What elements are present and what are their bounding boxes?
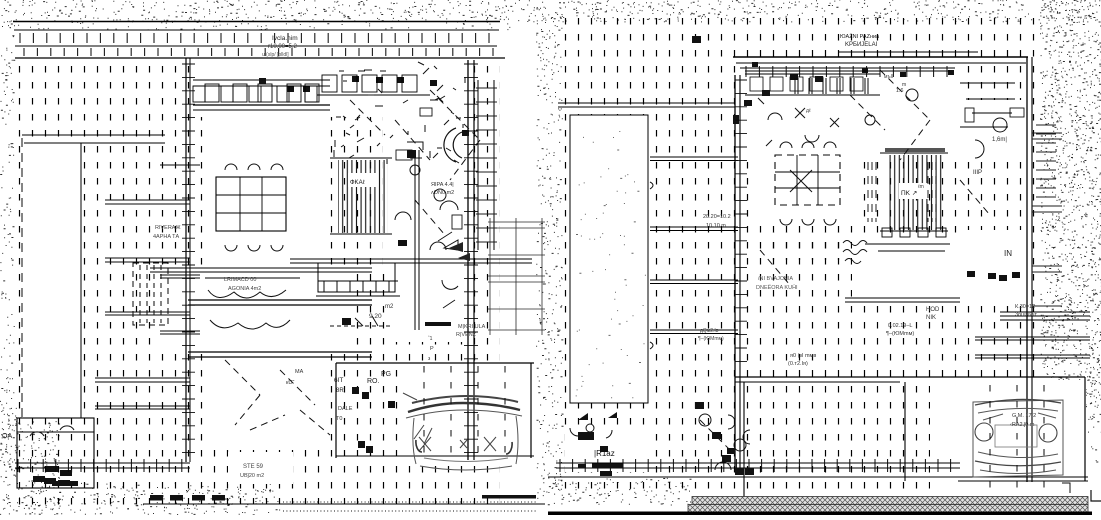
svg-text:IIIР: IIIР [973, 170, 982, 176]
text 2020 [703, 214, 731, 229]
svg-text:кU˜: кU˜ [286, 380, 294, 386]
text IN [1004, 249, 1012, 258]
exterior stair ladder left plan [476, 80, 497, 250]
exterior stair grid bottom right of left plan [488, 218, 545, 335]
svg-text:T0: T0 [336, 416, 342, 422]
black blob row above right garage [967, 271, 1020, 281]
svg-text:10.10 m: 10.10 m [706, 223, 726, 229]
svg-text:ℓm: ℓm [918, 184, 924, 190]
svg-text:DNEЁORA KUĤI: DNEЁORA KUĤI [756, 284, 798, 291]
staircase hatch left plan [330, 158, 392, 234]
svg-text:RIVERAЖ: RIVERAЖ [155, 225, 181, 231]
svg-text:ПK ↗: ПK ↗ [901, 190, 917, 197]
car right garage [973, 399, 1063, 477]
svg-text:KРБИЈΕLАI: KРБИЈΕLАI [845, 42, 878, 48]
right plan top walls [733, 52, 1028, 68]
svg-text:NIK: NIK [926, 315, 936, 321]
black blob top right plan [692, 36, 701, 43]
svg-text:дQм2.Iв: дQм2.Iв [700, 328, 719, 334]
svg-text:6IT: 6IT [334, 377, 343, 384]
svg-text:UBǰ20 m2: UBǰ20 m2 [240, 473, 264, 479]
svg-text:¶–(ЮМmм): ¶–(ЮМmм) [698, 336, 724, 342]
text garage labels [334, 371, 391, 422]
squiggles below stairs right plan [843, 228, 950, 264]
svg-text:PG: PG [381, 371, 391, 378]
svg-text:m2: m2 [385, 304, 394, 310]
kitchen counter right plan [745, 74, 880, 95]
svg-text:я0 (зI mмв: я0 (зI mмв [790, 353, 816, 359]
lounge walls [150, 268, 372, 357]
text bvajcnia [756, 276, 798, 291]
text k30 [1015, 304, 1037, 318]
svg-text:Ivcla.nim: Ivcla.nim [272, 35, 298, 42]
bottom edge left plan [143, 495, 545, 511]
left plan left wall [186, 58, 190, 462]
speckle noise right edge [1039, 0, 1101, 465]
top tick rows [20, 33, 493, 56]
left plan right wall [468, 60, 474, 460]
text 920m2 right [698, 328, 724, 342]
right edge bracket [1062, 483, 1101, 501]
svg-text:1.6: 1.6 [894, 88, 903, 94]
svg-text:LRIMACD 00: LRIMACD 00 [224, 277, 256, 283]
text ste59 [240, 464, 264, 479]
svg-text:(0.т2.Iя): (0.т2.Iя) [788, 361, 808, 367]
text IIR [973, 170, 982, 176]
svg-text:STE 59: STE 59 [243, 464, 264, 470]
svg-text:IN: IN [1004, 249, 1012, 258]
text mikri [456, 324, 486, 338]
bottom line ticks and blobs [18, 459, 951, 476]
faint dots in terrace [576, 132, 646, 398]
bathroom column walls left plan [415, 150, 458, 362]
speckle noise bottom middle [548, 478, 691, 505]
svg-text:AGONIA 4m2: AGONIA 4m2 [228, 286, 261, 292]
bathroom shelves right plan [960, 83, 1015, 127]
svg-text:ОA: ОA [2, 433, 12, 440]
svg-text:8R: 8R [336, 388, 344, 394]
text 50mm [788, 353, 816, 367]
beams above right car [975, 312, 1090, 358]
speckle noise left edge [0, 22, 15, 477]
dining table right plan [770, 142, 842, 260]
svg-text:u (slp/ [plldl]: u (slp/ [plldl] [262, 52, 289, 58]
text viola [262, 35, 298, 58]
door flags R1az area [570, 412, 617, 452]
svg-text:0.02.19–L: 0.02.19–L [888, 323, 912, 329]
svg-text:‹RA2.ǰ0 m: ‹RA2.ǰ0 m [1010, 422, 1035, 428]
svg-text:ЮAŽNI РАZниа: ЮAŽNI РАZниа [840, 32, 880, 40]
car left garage [403, 393, 522, 470]
right plan white rooms [565, 64, 1086, 492]
right plan interior walls [548, 298, 1088, 481]
sofa left plan [205, 278, 300, 329]
text ratni [840, 32, 880, 48]
svg-text:RO.: RO. [367, 378, 380, 385]
bottom-left furniture box [17, 418, 94, 488]
upper furniture row [317, 75, 430, 95]
extra living room fixtures left plan [395, 108, 469, 250]
svg-text:1,6m|: 1,6m| [992, 137, 1007, 143]
svg-text:20.20=10.2: 20.20=10.2 [703, 214, 731, 220]
wc fixtures bottom middle [695, 402, 754, 475]
door swing dashes living [350, 90, 480, 235]
text hodnik [926, 307, 940, 321]
svg-text:P: P [430, 346, 434, 352]
text gm172 [1010, 413, 1036, 428]
garage outline left [336, 363, 534, 458]
terrace rect border [570, 115, 648, 403]
kitchen appliances right black [733, 74, 823, 124]
left plan dash field [15, 58, 500, 510]
bathroom fixtures right plan [965, 108, 1024, 158]
door swing dashes hall [225, 360, 330, 435]
right exterior ticks [1032, 125, 1062, 312]
kitchen cabinet extra boxes [193, 86, 330, 102]
right plan bottom wall x744 [727, 382, 750, 497]
text r1az [594, 449, 615, 458]
svg-text:К.30=12: К.30=12 [1015, 304, 1035, 310]
X marks and arcs right kitchen room [758, 98, 839, 146]
sparse dash columns in garages [424, 366, 1044, 488]
text upa [431, 182, 454, 196]
speckle noise middle gap [536, 15, 563, 505]
kitchen counter left plan [193, 80, 330, 110]
bottom black bar [548, 512, 1092, 516]
text riveras [153, 225, 181, 240]
garage black blobs left [352, 387, 395, 453]
svg-text:¶–(ЮМmм): ¶–(ЮМmм) [886, 331, 914, 337]
top tick row right plan [745, 66, 950, 77]
left plan top wall lines [13, 22, 505, 59]
terrace edge hooks [650, 182, 653, 349]
svg-text:9.20: 9.20 [369, 313, 382, 320]
right plan left wall [735, 75, 740, 470]
extra clutter upper corridor left plan [334, 62, 465, 165]
svg-text:3ошѕ65т: 3ошѕ65т [1015, 312, 1037, 318]
wall y259 left plan [290, 259, 532, 263]
right plan right wall [1027, 57, 1032, 482]
white strip borders [22, 135, 165, 418]
left staircase treads [105, 165, 200, 334]
svg-text:мъII: мъII [884, 74, 893, 80]
stair side ticks right plan [868, 162, 936, 222]
right plan dash field [558, 12, 1040, 490]
text 16m [992, 137, 1007, 143]
right plan upper scatter extra [752, 62, 954, 190]
pergola beams left [15, 378, 190, 468]
kitchen appliances black [259, 76, 437, 92]
tiny text bottom left [2, 433, 12, 440]
dense dashed box left stair landing [133, 263, 168, 325]
left plan white rooms [23, 62, 532, 484]
door swing dashes right plan [700, 70, 990, 450]
svg-text:ФKAℓ: ФKAℓ [350, 179, 365, 186]
tick comb wall x740 [735, 80, 747, 361]
svg-text:MA: MA [295, 369, 304, 375]
big paren arcs bathroom left plan [407, 128, 470, 261]
svg-text:G.M. 17.2: G.M. 17.2 [1012, 413, 1036, 419]
text 00219 [886, 323, 914, 337]
text agonia [224, 277, 261, 292]
crosshatch strip [688, 497, 1088, 513]
svg-text:m: m [902, 82, 906, 88]
svg-text:ЯIPA 4.4|: ЯIPA 4.4| [431, 182, 454, 188]
svg-text:DALE: DALE [338, 406, 353, 412]
svg-text:/NI BVAJCNIA: /NI BVAJCNIA [758, 276, 793, 282]
staircase hatch right plan [880, 148, 948, 231]
svg-text:|R1az: |R1az [594, 449, 615, 458]
svg-text:R|VENZ: R|VENZ [456, 332, 477, 338]
dimension line 9.20 [286, 316, 392, 386]
svg-text:дℓ: дℓ [806, 108, 811, 114]
dining table left plan [216, 164, 286, 251]
text 9.20 [369, 304, 394, 320]
svg-text:r10.00=5.2: r10.00=5.2 [268, 44, 298, 50]
svg-text:4АРНA TА: 4АРНA TА [153, 234, 180, 240]
speckle noise top band [2, 0, 1101, 30]
speckle noise bottom left [0, 408, 280, 515]
wall tick combs left plan [182, 64, 478, 453]
pergola beams right plan [558, 103, 738, 334]
svg-text:M|KRI|ULA: M|KRI|ULA [458, 324, 486, 330]
kitchen cabinet ticks right [795, 78, 906, 94]
balcony rail frame left plan [316, 263, 400, 296]
svg-text:HOD: HOD [926, 307, 940, 313]
svg-text:ˆ1: ˆ1 [428, 336, 433, 342]
